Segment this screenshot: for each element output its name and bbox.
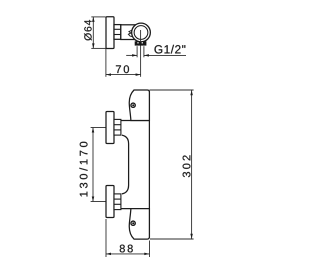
dimension line dia64 — [92, 17, 94, 49]
label 88 — [120, 245, 133, 253]
extension line 130/170 bottom — [91, 201, 106, 203]
spline line 2 plan — [114, 34, 121, 36]
arrowhead dia64 up — [92, 17, 95, 22]
top screw — [131, 103, 135, 107]
dimension line 130/170 — [92, 128, 94, 202]
extension line 70 left below knob — [105, 49, 107, 77]
splined stem plan — [114, 25, 121, 40]
arrowhead dia64 down — [92, 43, 95, 48]
extension line G1/2 right — [143, 46, 145, 57]
stop tab on body plan — [128, 30, 132, 37]
leader G1/2 right segment — [144, 54, 186, 56]
body inner circle plan — [134, 26, 148, 40]
label 302 (rotated) — [183, 155, 191, 177]
bottom escutcheon cap — [129, 209, 149, 240]
arrowhead 302 down — [190, 234, 193, 239]
bottom spline line 2 — [114, 203, 121, 205]
label 130/170 (rotated) — [79, 142, 87, 197]
body bar bottom edge — [120, 208, 149, 210]
top escutcheon cap — [129, 90, 149, 121]
dimension line 302 — [191, 90, 193, 238]
thread highlight 2 — [142, 42, 143, 43]
body right edge — [148, 91, 150, 238]
centerline outlet and extension 70 right — [140, 30, 142, 77]
top knob front — [106, 112, 114, 144]
leader G1/2 left segment — [126, 54, 137, 56]
dimension line 70 — [106, 74, 141, 76]
centerline through circle — [140, 30, 142, 41]
arrowhead 130/170 up — [92, 128, 95, 133]
bottom knob front — [106, 186, 114, 218]
threaded outlet block — [135, 41, 147, 45]
extension line 302 top — [149, 89, 193, 91]
arrowhead 88 left — [106, 253, 111, 256]
extension line 130/170 top — [91, 127, 106, 129]
arrowhead G1/2 pointing right — [132, 54, 137, 57]
arrowhead 70 left — [106, 73, 111, 76]
spline line 1 plan — [114, 28, 121, 30]
extension line dia64 bottom — [91, 47, 105, 49]
bottom splined stem front — [114, 194, 121, 210]
bottom spline line 1 — [114, 198, 121, 200]
extension line G1/2 left — [136, 46, 138, 57]
extension line 88 right — [149, 241, 151, 258]
arrowhead 302 up — [190, 90, 193, 95]
dimension line 88 — [106, 253, 149, 255]
arrowhead 130/170 down — [92, 197, 95, 202]
valve body plan — [121, 25, 137, 40]
arrowhead G1/2 pointing left — [144, 54, 149, 57]
label G1/2" — [154, 45, 185, 54]
knob plan view — [106, 17, 114, 49]
extension line 88 left — [105, 219, 107, 257]
connecting pipe — [122, 135, 129, 194]
label dia64 (rotated) — [84, 20, 92, 41]
extension line dia64 top — [91, 16, 105, 18]
extension line 302 bottom — [150, 238, 194, 240]
top spline line 1 — [114, 124, 121, 126]
body outer circle plan — [132, 23, 151, 42]
arrowhead 70 right — [136, 73, 141, 76]
top spline line 2 — [114, 129, 121, 131]
arrowhead 88 right — [144, 253, 149, 256]
top splined stem front — [114, 119, 121, 135]
label 70 — [116, 65, 129, 73]
thread highlight 1 — [137, 42, 138, 43]
bottom screw — [131, 221, 135, 225]
body bar top edge — [121, 120, 150, 122]
